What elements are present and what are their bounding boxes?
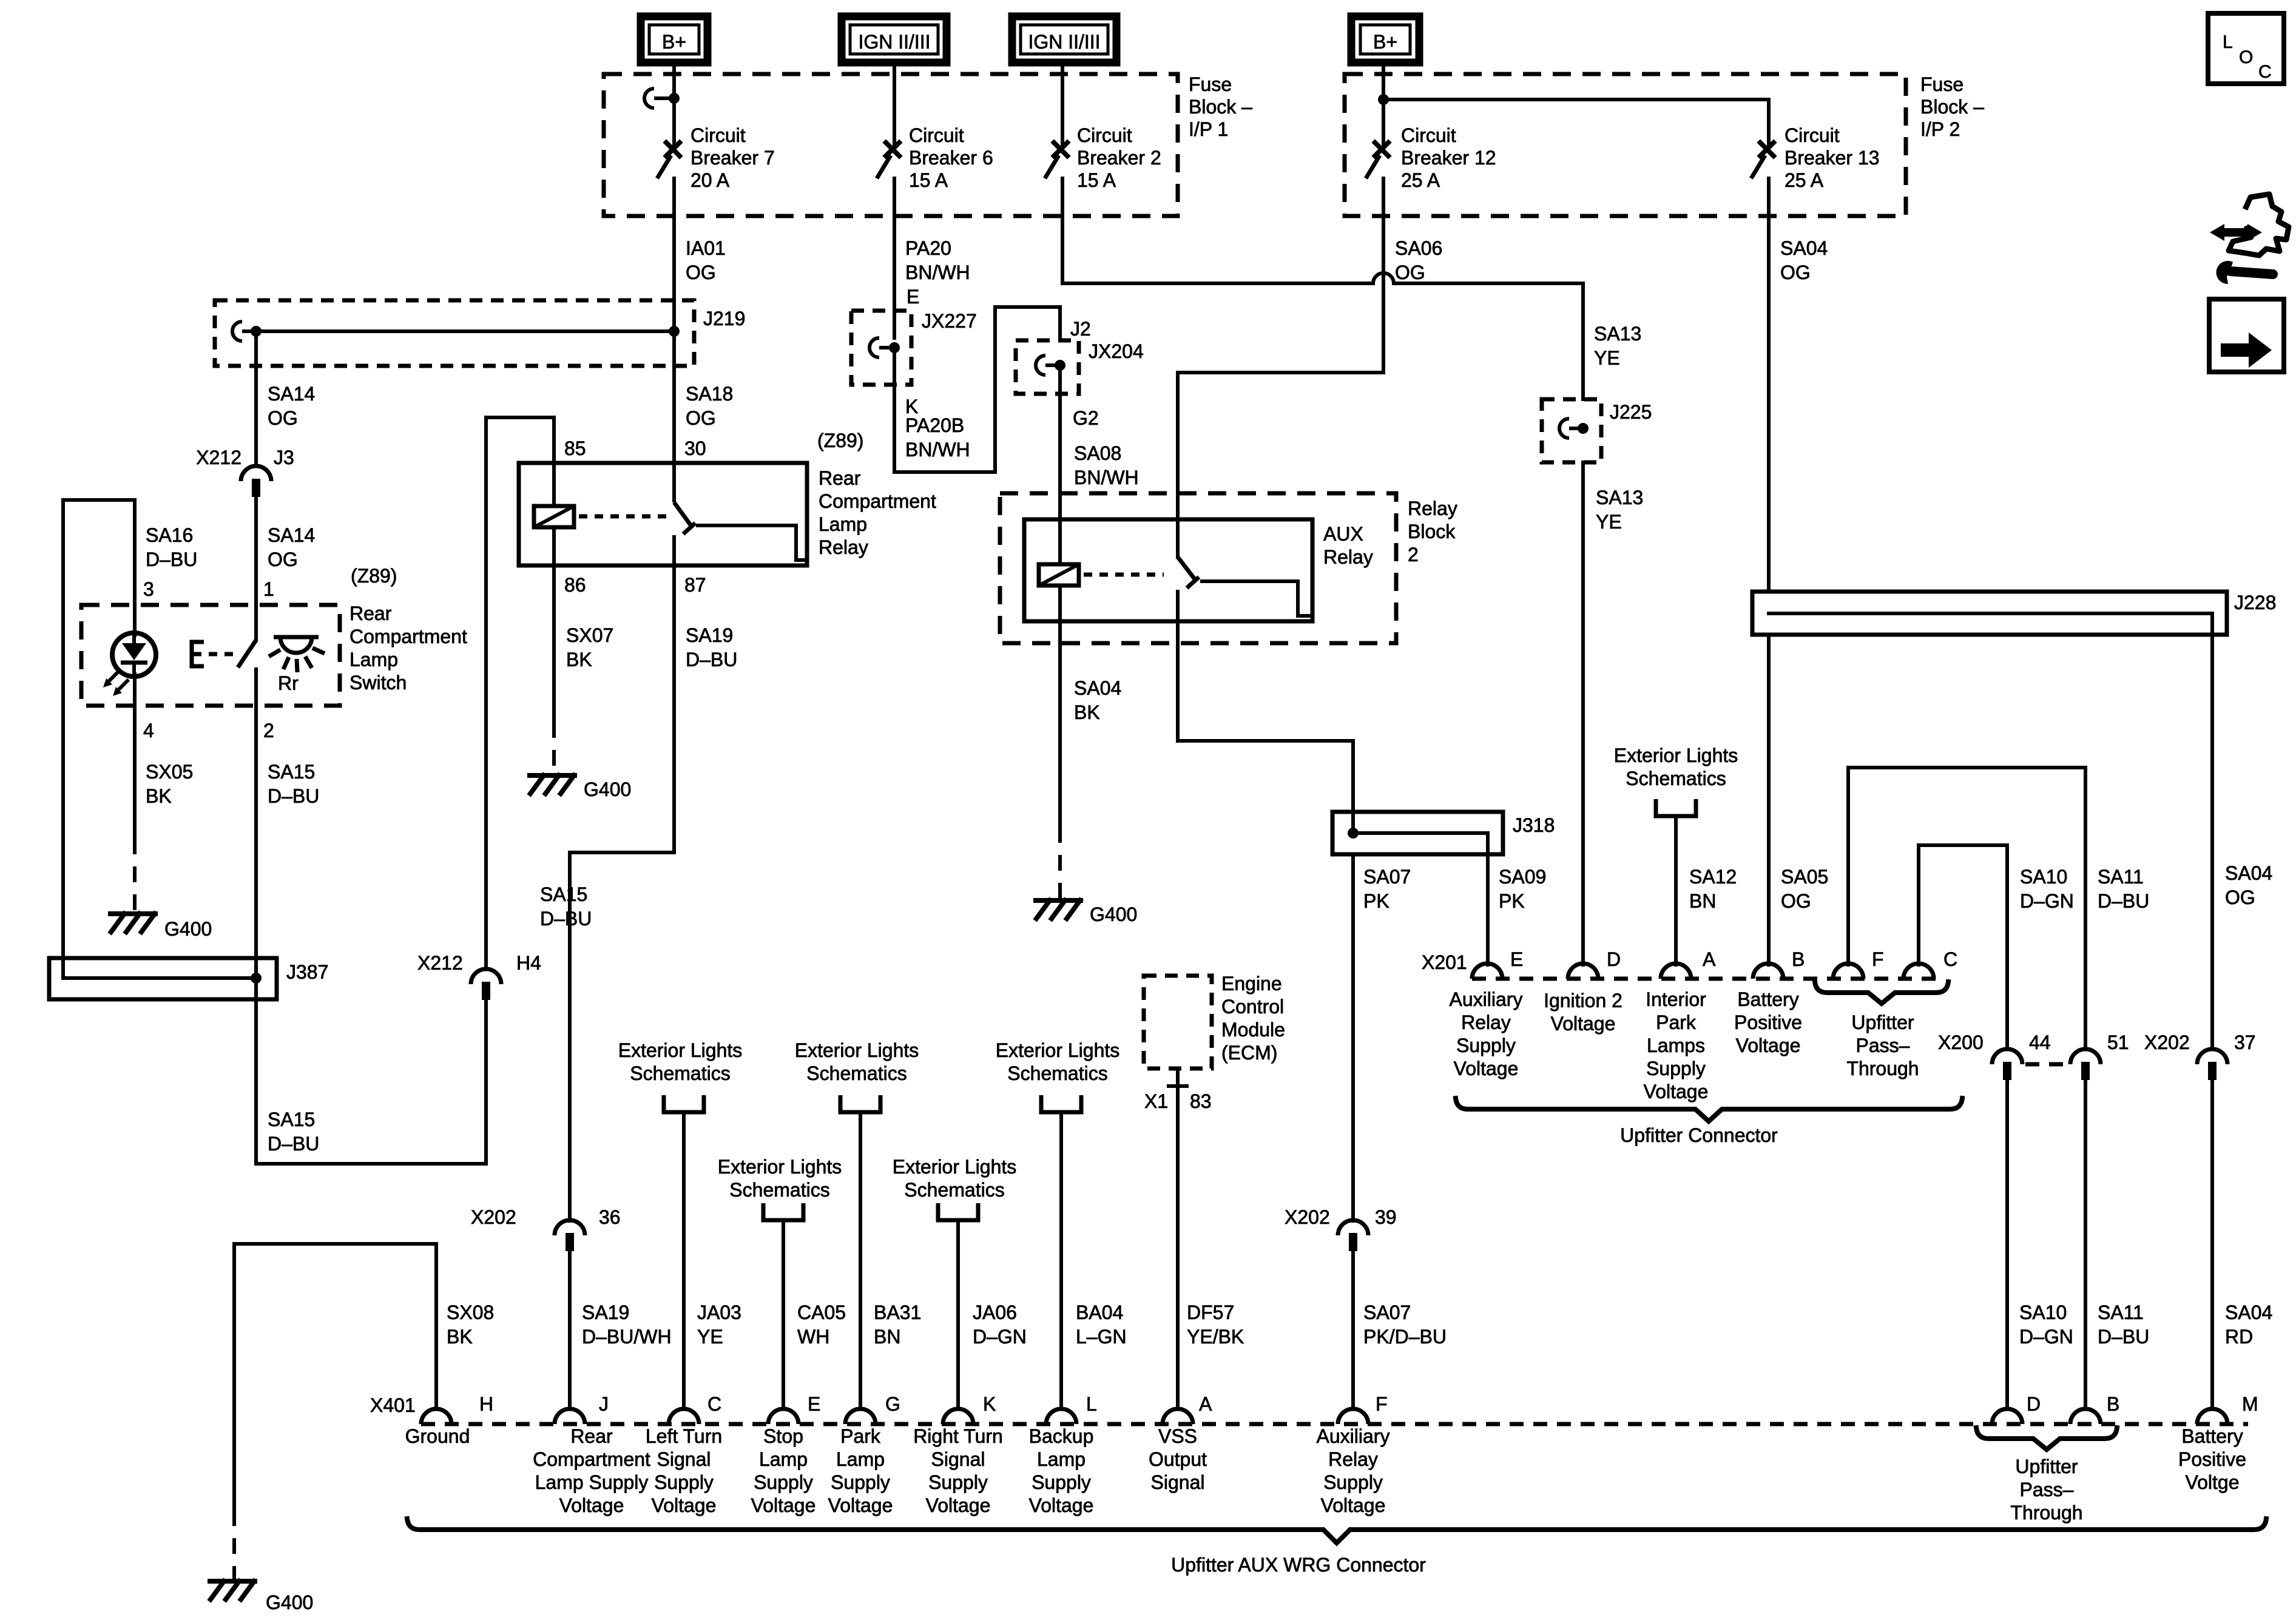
label DF57 YE/BK [1187, 1301, 1244, 1348]
svg-text:Upfitter: Upfitter [2015, 1456, 2078, 1477]
connector X401 pin C [669, 1409, 699, 1424]
svg-text:Auxiliary: Auxiliary [1450, 988, 1523, 1010]
bracket exterior lights (park lamps) [1656, 799, 1696, 816]
svg-text:B+: B+ [1373, 31, 1397, 53]
wire switch pin 2 stub [254, 669, 258, 706]
svg-text:H: H [479, 1393, 493, 1415]
AUX relay coil link (dashed) [1084, 573, 1164, 577]
svg-text:IA01: IA01 [686, 237, 726, 259]
ground G400 (SX05) [110, 914, 155, 932]
svg-text:JA06: JA06 [973, 1301, 1017, 1323]
svg-text:X401: X401 [370, 1394, 416, 1416]
wire SA11 X200-51 to X401 pin B [2084, 1080, 2087, 1409]
svg-text:J228: J228 [2234, 592, 2276, 613]
ground G400 (SX07) [530, 775, 575, 794]
wire inside J219 [252, 329, 674, 333]
JX204 terminal curl and junction [1036, 356, 1065, 375]
svg-text:30: 30 [684, 437, 706, 459]
svg-text:Fuse: Fuse [1189, 73, 1232, 95]
label 51 [2107, 1031, 2129, 1053]
svg-text:BK: BK [1074, 701, 1100, 723]
svg-text:Voltge: Voltge [2186, 1471, 2240, 1493]
connector X401 pin G [845, 1409, 876, 1424]
wire SA04 AUX coil down [1058, 621, 1062, 827]
svg-text:Park: Park [840, 1425, 881, 1447]
label 44 [2029, 1031, 2051, 1053]
svg-text:Voltage: Voltage [1029, 1494, 1094, 1516]
inline connector X212 J3 [241, 466, 271, 497]
svg-text:Schematics: Schematics [806, 1062, 907, 1084]
relay block 2 (dashed box) [1000, 493, 1396, 643]
label J387 [286, 961, 328, 983]
label Upfitter Connector [1620, 1124, 1778, 1146]
svg-text:X212: X212 [417, 952, 463, 974]
label Exterior Lights Schematics (park lamp) [795, 1039, 919, 1084]
wire breaker 2 down to corner [1061, 178, 1064, 283]
svg-text:3: 3 [143, 578, 154, 600]
label CA05 WH [797, 1301, 846, 1348]
inline connector X212 H4 [471, 969, 501, 1000]
svg-text:X202: X202 [471, 1206, 516, 1228]
svg-text:Circuit: Circuit [909, 124, 964, 146]
svg-text:D–BU: D–BU [2098, 1326, 2149, 1348]
wire SA10 X200-44 to X401 pin D [2005, 1080, 2009, 1409]
label SA19 D-BU/WH [582, 1301, 672, 1348]
svg-text:D–GN: D–GN [2020, 890, 2074, 912]
svg-text:Compartment: Compartment [533, 1448, 650, 1470]
svg-text:BK: BK [146, 785, 172, 807]
wire DF57 ECM to X401 pin A [1176, 1068, 1180, 1409]
svg-text:Voltage: Voltage [1551, 1013, 1616, 1035]
wire PA20B jog right and up [894, 307, 1060, 472]
svg-text:Voltage: Voltage [1736, 1035, 1801, 1056]
connector X401 pin M [2197, 1409, 2227, 1424]
svg-text:OG: OG [1781, 890, 1811, 912]
wire breaker 2 output right with hop over SA06 [1062, 282, 1373, 285]
svg-text:Schematics: Schematics [904, 1179, 1004, 1201]
wire park lamp supply to X401 [859, 1112, 862, 1409]
wire SA16 top loop to LED pin 3 [63, 500, 135, 978]
svg-text:B: B [2107, 1393, 2119, 1415]
svg-text:85: 85 [564, 437, 586, 459]
label J2 [1070, 318, 1091, 340]
label X202 (pin 36) [471, 1206, 516, 1228]
connector X401 pin K [943, 1409, 973, 1424]
connector X401 pin B [2070, 1409, 2101, 1424]
wire SA15 pin 2 to J387 [254, 706, 258, 978]
svg-text:87: 87 [684, 574, 706, 596]
svg-text:Rear: Rear [819, 467, 861, 489]
label pin 1 [263, 578, 274, 600]
svg-text:37: 37 [2234, 1031, 2256, 1053]
svg-text:X201: X201 [1422, 951, 1467, 973]
switch solenoid E symbol [192, 642, 238, 666]
label Exterior Lights Schematics (right turn) [893, 1156, 1017, 1201]
ECM pin tick X1 83 [1167, 1084, 1189, 1088]
svg-text:Lamps: Lamps [1647, 1035, 1705, 1056]
label X212 (at H4) [417, 952, 463, 974]
label Park Lamp Supply Voltage [828, 1425, 893, 1516]
svg-text:Circuit: Circuit [1784, 124, 1840, 146]
svg-text:J: J [599, 1393, 609, 1415]
label Relay Block 2 [1408, 498, 1457, 565]
svg-text:Compartment: Compartment [819, 490, 936, 512]
svg-text:Upfitter AUX WRG Connector: Upfitter AUX WRG Connector [1171, 1554, 1426, 1576]
svg-text:Supply: Supply [831, 1471, 890, 1493]
svg-text:SA13: SA13 [1596, 487, 1643, 508]
svg-text:51: 51 [2107, 1031, 2129, 1053]
connector X401 pin E [768, 1409, 799, 1424]
svg-text:X202: X202 [1285, 1206, 1330, 1228]
label SA12 BN [1689, 866, 1737, 912]
rear compartment lamp switch (dashed box) [81, 605, 340, 706]
svg-text:BN/WH: BN/WH [905, 262, 970, 283]
wire SA14 J3 to lamp switch pin 1 [254, 496, 258, 640]
svg-text:Positive: Positive [2178, 1448, 2246, 1470]
svg-text:E: E [808, 1393, 820, 1415]
svg-text:SA08: SA08 [1074, 442, 1121, 464]
brace upfitter connector (X201) [1456, 1098, 1962, 1121]
svg-text:Voltage: Voltage [926, 1494, 991, 1516]
svg-text:SA04: SA04 [1780, 237, 1828, 259]
connector JX204 (dashed box) [1016, 340, 1079, 394]
svg-text:D–GN: D–GN [973, 1326, 1027, 1348]
svg-text:Circuit: Circuit [1401, 124, 1456, 146]
connector X200 pin 44 [1992, 1049, 2022, 1080]
bracket exterior lights (right turn) [938, 1203, 978, 1220]
label Battery Positive Voltage (X201 B) [1734, 988, 1802, 1056]
svg-text:Supply: Supply [1456, 1035, 1516, 1056]
label SA04 OG (above J228) [1780, 237, 1828, 283]
connector X202 pin 37 [2197, 1049, 2227, 1080]
svg-text:SA04: SA04 [2225, 862, 2272, 884]
svg-text:Schematics: Schematics [630, 1062, 730, 1084]
svg-text:BK: BK [447, 1326, 473, 1348]
label Ground (X401 H) [405, 1425, 470, 1447]
svg-text:Through: Through [1846, 1058, 1919, 1079]
svg-text:SA10: SA10 [2019, 1301, 2067, 1323]
svg-text:OG: OG [1780, 262, 1811, 283]
wire SA13 down to J225 [1581, 283, 1585, 399]
svg-text:A: A [1703, 948, 1716, 970]
svg-text:20 A: 20 A [690, 169, 730, 191]
label G400 (SA04) [1090, 903, 1137, 925]
label JA03 YE [697, 1301, 741, 1348]
svg-text:SA04: SA04 [2225, 1301, 2272, 1323]
svg-text:Output: Output [1149, 1448, 1207, 1470]
svg-text:O: O [2239, 47, 2253, 67]
node breaker 12 feed junction [1378, 94, 1389, 105]
label H4 [516, 952, 541, 974]
lamp symbol Rr [269, 637, 325, 672]
wire SA05 J228 to X201 pin B [1767, 635, 1771, 965]
label G400 (SX07) [584, 778, 631, 800]
label SA06 OG [1395, 237, 1442, 283]
svg-text:SA19: SA19 [686, 624, 733, 646]
svg-text:15 A: 15 A [1077, 169, 1116, 191]
svg-text:Relay: Relay [819, 536, 868, 558]
connector X201 pin A [1661, 964, 1691, 979]
svg-text:SA05: SA05 [1781, 866, 1828, 888]
label Exterior Lights Schematics (stop lamp) [718, 1156, 842, 1201]
label Engine Control Module (ECM) [1221, 973, 1285, 1064]
svg-text:BN/WH: BN/WH [1074, 467, 1139, 488]
svg-text:J387: J387 [286, 961, 328, 983]
svg-text:Lamp: Lamp [759, 1448, 808, 1470]
label SA10 D-GN (upper) [2020, 866, 2074, 912]
svg-text:2: 2 [263, 720, 274, 741]
label SA18 OG [686, 383, 733, 429]
svg-text:Stop: Stop [763, 1425, 803, 1447]
svg-text:SA12: SA12 [1689, 866, 1737, 888]
switch blade E-operated [238, 640, 256, 667]
wire SX07 relay 86 down [552, 565, 556, 722]
wire SA15 J387 down and over to X212 H4 [256, 978, 486, 1164]
connector X200 pin 51 [2070, 1049, 2101, 1080]
AUX relay (box) [1024, 519, 1312, 621]
label SA04 OG (right) [2225, 862, 2272, 908]
svg-text:Pass–: Pass– [1856, 1035, 1910, 1056]
svg-text:Exterior Lights: Exterior Lights [893, 1156, 1017, 1178]
label Exterior Lights Schematics (left turn) [618, 1039, 743, 1084]
svg-text:G400: G400 [164, 918, 212, 940]
label X212 (at J3) [196, 447, 241, 468]
wire SA04 J228 branch down to X202-37 [2210, 635, 2214, 1049]
svg-text:D–BU/WH: D–BU/WH [582, 1326, 672, 1348]
svg-text:Battery: Battery [2181, 1425, 2243, 1447]
svg-text:SA14: SA14 [268, 383, 315, 405]
connector X201 pin F [1833, 964, 1863, 979]
brace upfitter pass-through (X401 D B) [1976, 1428, 2117, 1450]
AUX relay switch pin 30 to 87 [1178, 557, 1312, 621]
svg-text:D–BU: D–BU [686, 649, 737, 670]
svg-text:SA16: SA16 [146, 524, 193, 546]
label J3 [274, 447, 294, 468]
label Left Turn Signal Supply Voltage [646, 1425, 722, 1516]
brace upfitter pass-through (X201 F C) [1815, 982, 1948, 1004]
label Backup Lamp Supply Voltage [1029, 1425, 1094, 1516]
wire left turn supply to X401 [682, 1112, 686, 1409]
relay switch pin 30 to 87 [674, 463, 807, 565]
svg-text:Fuse: Fuse [1920, 73, 1963, 95]
label Circuit Breaker 13 25 A [1784, 124, 1880, 191]
label Interior Park Lamps Supply Voltage (X201 A) [1644, 988, 1709, 1102]
J219 terminal curl [232, 322, 252, 341]
svg-text:Upfitter Connector: Upfitter Connector [1620, 1124, 1778, 1146]
svg-text:83: 83 [1190, 1090, 1212, 1112]
svg-text:D–BU: D–BU [2098, 890, 2149, 912]
svg-text:D–GN: D–GN [2019, 1326, 2073, 1348]
label pin 87 [684, 574, 706, 596]
svg-text:Voltage: Voltage [652, 1494, 717, 1516]
svg-text:Right Turn: Right Turn [913, 1425, 1003, 1447]
label J228 [2234, 592, 2276, 613]
label SX07 BK [566, 624, 613, 670]
svg-text:86: 86 [564, 574, 586, 596]
label X401 [370, 1394, 416, 1416]
wire B+ branch to circuit breaker 13 [1383, 98, 1769, 101]
svg-text:SA15: SA15 [268, 1109, 315, 1130]
svg-text:SA18: SA18 [686, 383, 733, 405]
label SA11 D-BU (upper) [2098, 866, 2149, 912]
legend tools icon [2210, 194, 2289, 284]
wire SA19 X202-36 to X401 pin J [568, 1251, 572, 1409]
wire SA15 H4 up to relay pin 85 [486, 417, 554, 969]
connector J225 (dashed box) [1542, 399, 1601, 462]
svg-text:BA04: BA04 [1076, 1301, 1123, 1323]
svg-text:I/P 2: I/P 2 [1920, 118, 1960, 140]
svg-text:YE: YE [697, 1326, 723, 1348]
svg-text:25 A: 25 A [1401, 169, 1440, 191]
svg-text:44: 44 [2029, 1031, 2051, 1053]
svg-text:Block: Block [1408, 521, 1456, 542]
svg-text:RD: RD [2225, 1326, 2253, 1348]
svg-text:OG: OG [2225, 886, 2255, 908]
svg-text:Relay: Relay [1408, 498, 1457, 519]
wire SA06 jog left to AUX relay pin 30 [1178, 373, 1383, 557]
svg-text:Signal: Signal [1151, 1471, 1205, 1493]
connector X202 pin 39 [1338, 1220, 1368, 1251]
svg-text:BN/WH: BN/WH [905, 439, 970, 461]
svg-text:G: G [885, 1393, 900, 1415]
label pin 30 [684, 437, 706, 459]
bracket exterior lights (park lamp) [840, 1095, 880, 1112]
label (Z89) switch [351, 565, 397, 587]
svg-text:OG: OG [268, 407, 298, 429]
circuit breaker 6 [877, 143, 899, 178]
wire B+ to circuit breaker 7 [672, 62, 676, 146]
svg-text:OG: OG [268, 549, 298, 570]
svg-text:H4: H4 [516, 952, 541, 974]
svg-text:(ECM): (ECM) [1221, 1042, 1277, 1064]
bracket exterior lights (backup lamp) [1041, 1095, 1081, 1112]
svg-text:4: 4 [143, 720, 154, 741]
label G400 (SX05) [164, 918, 212, 940]
label Upfitter Pass-Through (X201) [1846, 1011, 1919, 1079]
wire inside J228 [1769, 613, 2212, 635]
wire SA18 J219 to relay pin 30 [672, 331, 676, 463]
label pin 85 [564, 437, 586, 459]
connector X201 pin C [1903, 964, 1934, 979]
label SA08 BN/WH [1074, 442, 1139, 488]
wire IA01 breaker 7 to J219 [672, 178, 676, 331]
label pin 86 [564, 574, 586, 596]
svg-text:G400: G400 [266, 1592, 313, 1613]
label 39 [1375, 1206, 1397, 1228]
svg-text:YE: YE [1594, 347, 1620, 369]
svg-text:IGN II/III: IGN II/III [1028, 31, 1100, 53]
wire LED to pin 4 [133, 674, 137, 839]
label Right Turn Signal Supply Voltage [913, 1425, 1003, 1516]
wire SA06 breaker 12 down (passing under hop) [1382, 178, 1385, 373]
label Ignition 2 Voltage (X201 D) [1544, 990, 1622, 1035]
svg-text:Voltage: Voltage [1644, 1081, 1709, 1102]
svg-text:Schematics: Schematics [729, 1179, 829, 1201]
svg-text:JA03: JA03 [697, 1301, 741, 1323]
wire SA14 J219 to X212 J3 [254, 331, 258, 466]
connector X201 pin E [1472, 964, 1502, 979]
wire SA13 J225 to X201 pin D [1581, 462, 1585, 965]
svg-text:PA20B: PA20B [905, 414, 964, 436]
splice J318 (box) [1332, 812, 1503, 854]
svg-text:D–BU: D–BU [146, 549, 197, 570]
wire SA12 to X201 pin A [1674, 816, 1678, 965]
svg-text:SA13: SA13 [1594, 323, 1641, 345]
label Upfitter Pass-Through (X401) [2010, 1456, 2082, 1524]
svg-text:Compartment: Compartment [349, 626, 467, 647]
svg-text:J2: J2 [1070, 318, 1091, 340]
label Stop Lamp Supply Voltage [751, 1425, 816, 1516]
wire inside J318 [1353, 812, 1488, 854]
svg-text:Lamp Supply: Lamp Supply [535, 1471, 649, 1493]
J225 terminal curl and junction [1559, 419, 1589, 438]
svg-text:X1: X1 [1144, 1090, 1168, 1112]
bracket exterior lights (stop lamp) [763, 1203, 803, 1220]
label terminal K [905, 396, 918, 417]
label SA19 D-BU [686, 624, 737, 670]
LED indicator lamp [103, 633, 156, 696]
svg-text:BK: BK [566, 649, 592, 670]
svg-text:Module: Module [1221, 1019, 1285, 1041]
legend LOC box [2208, 13, 2284, 84]
label BA31 BN [874, 1301, 921, 1348]
svg-text:Backup: Backup [1029, 1425, 1094, 1447]
svg-text:L: L [2223, 32, 2233, 52]
connector row X401 (dashed) [421, 1422, 2248, 1426]
label SA04 RD [2225, 1301, 2272, 1348]
connector X401 pin D [1992, 1409, 2022, 1424]
label 37 [2234, 1031, 2256, 1053]
label BA04 L-GN [1076, 1301, 1127, 1348]
label Rear Compartment Lamp Relay [819, 467, 936, 558]
label SA14 OG (lower) [268, 524, 315, 570]
wire IGN II/III to circuit breaker 2 [1061, 62, 1064, 146]
splice J219 (dashed box) [215, 300, 694, 366]
connector X201 pin B [1753, 964, 1783, 979]
label AUX Relay [1323, 523, 1373, 568]
bracket exterior lights (left turn) [664, 1095, 704, 1112]
svg-text:Lamp: Lamp [1037, 1448, 1086, 1470]
svg-text:Supply: Supply [928, 1471, 988, 1493]
label SA15 D-BU (upper) [268, 761, 319, 807]
label SA10 D-GN (lower) [2019, 1301, 2073, 1348]
svg-text:Interior: Interior [1646, 988, 1706, 1010]
label Exterior Lights Schematics (park lamps) [1614, 744, 1738, 789]
wire backup lamp supply to X401 [1059, 1112, 1063, 1409]
label X200 [1938, 1031, 1984, 1053]
svg-text:Exterior Lights: Exterior Lights [795, 1039, 919, 1061]
svg-text:36: 36 [599, 1206, 621, 1228]
svg-text:E: E [1510, 948, 1523, 970]
svg-text:YE: YE [1596, 511, 1622, 533]
svg-text:D–BU: D–BU [540, 908, 592, 930]
svg-text:Rr: Rr [278, 672, 299, 694]
svg-text:BN: BN [874, 1326, 900, 1348]
svg-text:A: A [1199, 1393, 1212, 1415]
label (Z89) relay [817, 430, 863, 451]
wire SX08 dashed to ground [232, 1510, 236, 1579]
svg-text:Lamp: Lamp [349, 649, 398, 670]
relay coil (85-86) [534, 463, 574, 565]
svg-text:SA10: SA10 [2020, 866, 2067, 888]
label G2 [1073, 407, 1099, 429]
svg-text:Ground: Ground [405, 1425, 470, 1447]
svg-text:SA04: SA04 [1074, 677, 1121, 699]
svg-text:Lamp: Lamp [836, 1448, 885, 1470]
svg-text:DF57: DF57 [1187, 1301, 1234, 1323]
circuit breaker 2 [1045, 143, 1067, 178]
legend arrow box [2209, 299, 2284, 372]
